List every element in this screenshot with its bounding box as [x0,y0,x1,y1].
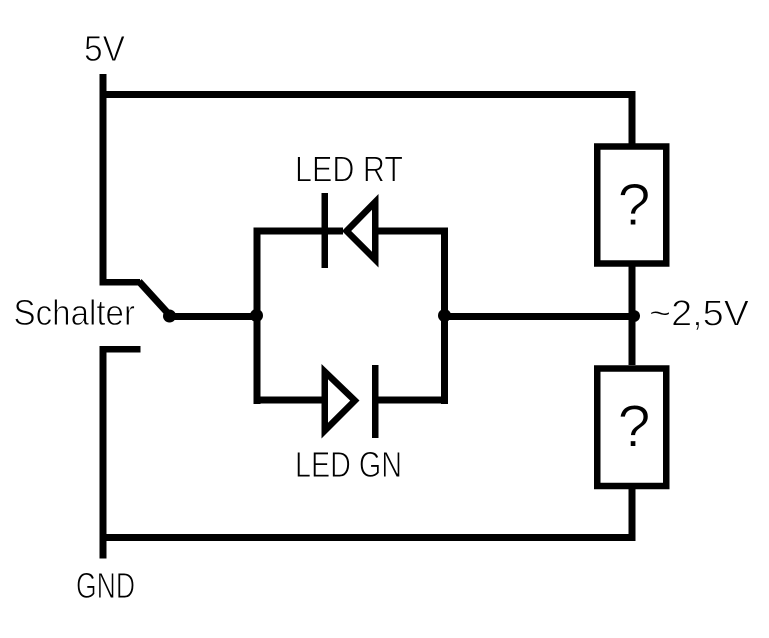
node: middle junction on right rail [628,310,640,322]
wire: bottom branch right segment [379,397,449,404]
wire: top branch left segment [254,228,344,235]
wire: left bracket vertical [254,228,261,405]
wire: 5V vertical rail (top left) [100,74,107,285]
wire: right rail between resistors (upper part) [629,263,636,365]
wire: GND vertical rail (bottom left) [100,346,107,559]
wire: right rail below bottom resistor [629,486,636,541]
svg-text:LED GN: LED GN [295,444,402,485]
wire: lower switch contact stub [100,346,141,353]
resistor R2 (bottom "?" box) [597,369,666,487]
node: left bracket junction [250,309,263,322]
svg-text:GND: GND [76,565,135,606]
diode LED RT cathode bar [322,193,329,268]
diode LED RT triangle [342,194,379,268]
svg-text:5V: 5V [84,28,125,69]
svg-text:?: ? [618,393,651,459]
diode LED GN triangle [322,364,360,439]
wire: switch to LED bracket (middle left) [170,313,261,320]
wire: bottom branch left segment [254,397,323,404]
wire: upper switch contact stub [100,279,141,286]
svg-text:~2,5V: ~2,5V [649,293,749,334]
wire: top branch right segment [379,228,449,235]
resistor R1 (top "?" box) [597,147,666,264]
switch S1 lever [139,282,170,316]
wire: bracket to right rail (middle right) [445,313,636,320]
diode LED GN cathode bar [372,365,379,438]
svg-text:LED RT: LED RT [295,149,403,190]
wire: right bracket vertical [441,228,448,405]
svg-text:?: ? [618,172,651,238]
wire: top horizontal 5V rail [100,91,636,98]
svg-text:Schalter: Schalter [14,292,136,333]
node: switch common contact [163,310,176,323]
wire: bottom horizontal GND rail [100,534,636,541]
wire: right rail down to top resistor [629,91,636,147]
node: right bracket junction [438,309,451,322]
